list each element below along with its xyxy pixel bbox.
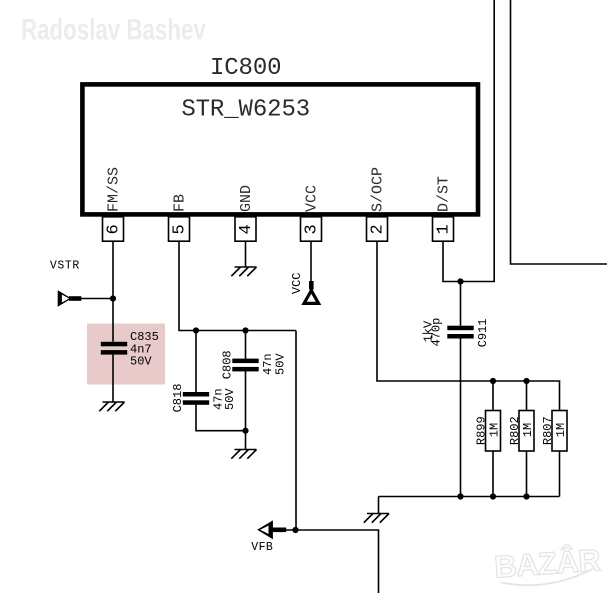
svg-text:4: 4: [237, 224, 256, 234]
pin name GND: [238, 185, 255, 212]
wire down to VFB node: [295, 331, 297, 531]
svg-text:FM/SS: FM/SS: [106, 167, 123, 212]
label C808: [221, 350, 235, 379]
port arrow VSTR: [58, 290, 82, 307]
svg-text:IC800: IC800: [210, 55, 282, 82]
svg-text:6: 6: [105, 224, 124, 234]
node junction C818 top: [193, 327, 199, 333]
wire pin6 to C835: [112, 242, 114, 402]
label C818: [171, 384, 185, 413]
svg-text:50V: 50V: [223, 388, 237, 410]
pin 5 box: [169, 217, 190, 241]
node junction C818/C808 bottom: [242, 428, 248, 434]
pin 3 box: [301, 217, 322, 241]
svg-text:VCC: VCC: [304, 185, 321, 212]
svg-text:D/ST: D/ST: [436, 176, 453, 212]
resistor R807: [552, 411, 567, 497]
wire C808 branch: [245, 331, 247, 450]
svg-text:VSTR: VSTR: [50, 259, 80, 272]
svg-text:FB: FB: [172, 194, 189, 212]
label C911: [476, 318, 490, 347]
node junction D/ST: [457, 278, 463, 284]
pin name D/ST: [436, 176, 453, 212]
label R802: [508, 416, 535, 445]
ground at rail left: [364, 514, 389, 523]
node junction C911 bottom: [457, 493, 463, 499]
pin 1 box: [433, 217, 454, 241]
pin 2 box: [367, 217, 388, 241]
node junction VSTR/pin6: [110, 295, 116, 301]
svg-text:50V: 50V: [130, 355, 152, 369]
ground under pin4: [231, 267, 256, 276]
label VFB: [251, 541, 273, 554]
label C808 value: [261, 353, 288, 375]
svg-text:C808: C808: [221, 350, 235, 379]
label C818 value: [212, 388, 238, 410]
node junction R899 top: [490, 378, 496, 384]
svg-text:R802: R802: [508, 416, 522, 445]
wire C911 branch: [460, 282, 462, 497]
label R899: [474, 416, 501, 445]
capacitor C835 plates: [101, 342, 127, 355]
label VCC: [290, 272, 304, 294]
pin name FB: [172, 194, 189, 212]
ground under C808: [231, 450, 256, 459]
svg-text:1M: 1M: [521, 423, 535, 437]
IC U800 body: [82, 84, 478, 214]
svg-text:C818: C818: [171, 384, 185, 413]
node junction R802 top: [523, 378, 529, 384]
pin name VCC: [304, 185, 321, 212]
wire VFB line: [286, 530, 379, 593]
svg-text:VFB: VFB: [251, 541, 273, 554]
svg-text:BAZÂR: BAZÂR: [493, 541, 601, 584]
label IC800: [210, 55, 282, 82]
capacitor C818 plates: [183, 392, 209, 405]
wire rail to ground: [378, 497, 380, 514]
label STR_W6253: [181, 96, 310, 123]
label R807: [541, 416, 568, 445]
svg-text:R807: R807: [541, 416, 555, 445]
svg-text:STR_W6253: STR_W6253: [181, 96, 310, 123]
wire resistor bottom rail: [379, 496, 560, 498]
svg-text:R899: R899: [474, 416, 488, 445]
pin 4 box: [235, 217, 256, 241]
label C835 value: [130, 330, 159, 369]
svg-text:1: 1: [435, 224, 454, 234]
watermark BAZAR logo: [493, 541, 602, 587]
label VSTR: [50, 259, 80, 272]
svg-text:3: 3: [303, 224, 322, 234]
node junction C808 top: [242, 327, 248, 333]
svg-text:470p: 470p: [430, 318, 444, 347]
ground under C835: [99, 402, 124, 411]
resistor R899: [486, 381, 501, 497]
watermark Radoslav Bashev: [21, 12, 206, 46]
wire C818 branch: [196, 331, 246, 431]
power symbol VCC: [301, 281, 321, 305]
svg-text:50V: 50V: [274, 353, 288, 375]
pin name S/OCP: [370, 167, 387, 212]
svg-text:1M: 1M: [488, 423, 502, 437]
highlight box around C835: [87, 324, 165, 385]
svg-text:C911: C911: [476, 318, 490, 347]
wire pin5 FB rail: [179, 242, 296, 331]
svg-text:1M: 1M: [554, 423, 568, 437]
svg-text:VCC: VCC: [290, 272, 304, 294]
pin name FM/SS: [106, 167, 123, 212]
wire pin3 VCC: [310, 242, 312, 282]
svg-text:GND: GND: [238, 185, 255, 212]
svg-text:S/OCP: S/OCP: [370, 167, 387, 212]
svg-text:Radoslav Bashev: Radoslav Bashev: [21, 12, 206, 46]
label C911 value: [421, 318, 443, 347]
wire pin2 S/OCP rail: [377, 242, 560, 411]
resistor R802: [519, 381, 534, 497]
wire top-right L: [511, 0, 607, 264]
node junction VFB: [292, 527, 298, 533]
node junction R899 bottom: [490, 493, 496, 499]
node junction R802 bottom: [523, 493, 529, 499]
capacitor C911 plates: [447, 326, 473, 339]
wire pin1 D/ST node: [443, 0, 494, 282]
wire VSTR to node: [81, 298, 113, 300]
port arrow VFB: [257, 520, 286, 539]
svg-text:2: 2: [369, 224, 388, 234]
svg-text:5: 5: [171, 224, 190, 234]
pin 6 box: [103, 217, 124, 241]
wire pin4 GND: [245, 242, 247, 267]
capacitor C808 plates: [232, 359, 258, 372]
